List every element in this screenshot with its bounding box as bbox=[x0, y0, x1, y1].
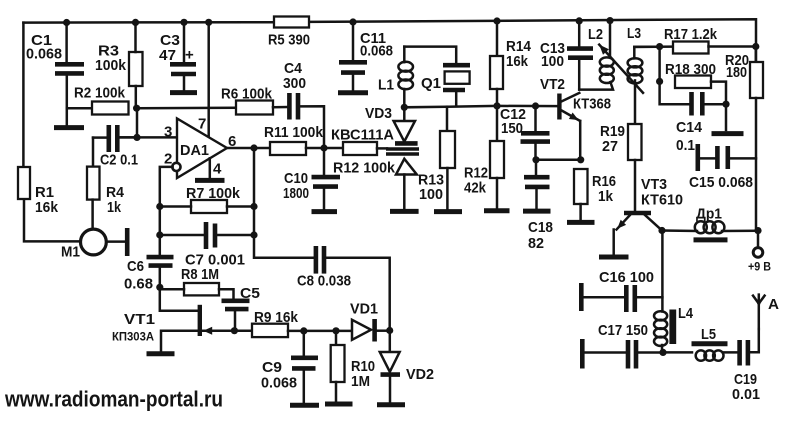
wire top supply rail left of R5 bbox=[23, 21, 274, 24]
node C12/C18 junction bbox=[532, 156, 539, 163]
node rail/C11 bbox=[349, 18, 356, 25]
svg-text:R6 100k: R6 100k bbox=[221, 86, 273, 103]
wire C7 right bbox=[217, 234, 254, 237]
resistor R5 bbox=[274, 17, 309, 28]
node supply junction bbox=[754, 227, 761, 234]
node R11/R12/C10 junction bbox=[320, 144, 327, 151]
svg-text:R7 100k: R7 100k bbox=[186, 185, 241, 202]
inductor L5 bbox=[663, 344, 737, 361]
node rail/C3 bbox=[180, 19, 187, 26]
svg-text:www.radioman-portal.ru: www.radioman-portal.ru bbox=[4, 387, 223, 412]
svg-text:+: + bbox=[185, 47, 194, 64]
inductor L1 bbox=[398, 47, 413, 108]
svg-text:R5 390: R5 390 bbox=[268, 32, 310, 49]
svg-text:100k: 100k bbox=[95, 57, 127, 74]
pin 2 wire bbox=[160, 167, 173, 255]
capacitor C17 bbox=[582, 339, 663, 369]
ground DA1 pin 4 bbox=[195, 178, 225, 183]
svg-text:R18 300: R18 300 bbox=[665, 61, 716, 78]
svg-text:100: 100 bbox=[419, 186, 443, 203]
capacitor C18 bbox=[524, 177, 550, 208]
svg-text:C8 0.038: C8 0.038 bbox=[297, 273, 351, 290]
wire microphone to electrode bbox=[106, 240, 125, 243]
wire to +9V terminal bbox=[757, 231, 760, 248]
wire R3 to R2 junction bbox=[135, 86, 138, 108]
svg-text:КТ610: КТ610 bbox=[641, 192, 683, 209]
svg-text:R12 100k: R12 100k bbox=[333, 160, 396, 177]
antenna A bbox=[753, 295, 765, 329]
node rail/R3 bbox=[132, 19, 139, 26]
wire pin 7 from rail to op-amp bbox=[207, 22, 210, 137]
node R2/R3/feedback junction bbox=[133, 105, 140, 112]
wire C2 left to R4 bbox=[93, 136, 106, 139]
choke Dr1 bbox=[694, 221, 759, 240]
transistor VT1 channel bbox=[198, 305, 202, 336]
capacitor C4 bbox=[289, 93, 298, 120]
node rail/R14 bbox=[493, 17, 500, 24]
wire C14 node to ground bbox=[725, 104, 728, 130]
wire R11 to R12 bbox=[306, 147, 343, 150]
node C5/gate junction bbox=[231, 327, 238, 334]
node C9 top bbox=[300, 327, 307, 334]
resistor R16 bbox=[574, 169, 588, 220]
resistor R2 bbox=[92, 102, 129, 115]
pin 4 wire bbox=[209, 158, 212, 178]
svg-text:1800: 1800 bbox=[283, 185, 309, 202]
capacitor C9 bbox=[291, 331, 318, 402]
wire R12b to ground bbox=[496, 178, 499, 208]
wire rail to R3 bbox=[134, 22, 137, 52]
node R18 left bbox=[656, 78, 663, 85]
node R14/base row bbox=[493, 102, 500, 109]
inductor L4 bbox=[654, 310, 676, 353]
svg-text:L3: L3 bbox=[627, 25, 641, 42]
wire rail to R14 bbox=[496, 21, 499, 56]
VT2 emitter arrow bbox=[569, 113, 579, 121]
wire R9 right bbox=[288, 330, 352, 333]
svg-text:Др1: Др1 bbox=[696, 206, 722, 223]
wire R14 node to R12b bbox=[496, 106, 499, 141]
node pin3/C2 junction bbox=[133, 134, 140, 141]
wire feedback row to R6 bbox=[137, 106, 236, 109]
terminal +9V bbox=[753, 248, 763, 258]
wire R4 to microphone bbox=[91, 200, 94, 230]
ground C1 bbox=[54, 125, 84, 130]
svg-text:2: 2 bbox=[164, 151, 172, 168]
svg-text:L2: L2 bbox=[588, 26, 603, 43]
capacitor C15 bbox=[698, 144, 756, 171]
svg-text:A: A bbox=[768, 296, 779, 313]
capacitor C1 bbox=[55, 23, 84, 125]
wire R8 right to C5 bbox=[219, 289, 234, 298]
wire C2 right to pin3 bbox=[120, 136, 137, 139]
resistor R20 bbox=[750, 47, 763, 231]
wire R13 to ground bbox=[446, 168, 449, 210]
ground VD2 bbox=[377, 402, 405, 407]
node L4/C17/L5 junction bbox=[659, 349, 666, 356]
inversion bubble pin 2 bbox=[172, 163, 180, 171]
node VT3 collector bbox=[658, 227, 665, 234]
node C6/R8 junction bbox=[156, 284, 163, 291]
wire top supply rail right of R5 bbox=[309, 19, 756, 62]
svg-text:7: 7 bbox=[198, 116, 206, 133]
resistor R4 bbox=[87, 167, 100, 200]
wire emitter row bbox=[536, 159, 581, 162]
resistor R13 bbox=[440, 131, 455, 168]
node R7 left junction bbox=[156, 203, 163, 210]
microphone electrode bar bbox=[125, 228, 130, 256]
wire R1 bottom to microphone bbox=[24, 199, 81, 241]
svg-text:C6: C6 bbox=[127, 258, 144, 275]
diode VD1 bbox=[352, 319, 390, 342]
VT1 gate arrow bbox=[203, 327, 212, 335]
VT3 emitter arrow bbox=[617, 220, 626, 229]
svg-text:150: 150 bbox=[501, 120, 523, 137]
svg-text:L1: L1 bbox=[378, 77, 394, 94]
svg-text:КТ368: КТ368 bbox=[573, 96, 611, 113]
capacitor C11 bbox=[339, 22, 367, 90]
wire C18 top stem bbox=[535, 160, 538, 175]
node rail/C13 bbox=[576, 17, 583, 24]
capacitor C13 bbox=[567, 21, 593, 90]
node VD1/VD2/C8 junction bbox=[386, 327, 393, 334]
svg-text:C17 150: C17 150 bbox=[598, 322, 648, 339]
ground VT3 emitter bbox=[599, 255, 629, 260]
node rail/pin7 bbox=[205, 19, 212, 26]
svg-text:Q1: Q1 bbox=[421, 75, 441, 92]
node R10 top bbox=[332, 327, 339, 334]
svg-text:M1: M1 bbox=[61, 244, 80, 261]
svg-text:47: 47 bbox=[159, 47, 176, 64]
resistor R14 bbox=[490, 56, 503, 89]
wire op-amp output bbox=[227, 147, 270, 150]
wire R13 branch bbox=[446, 107, 449, 131]
svg-text:VD1: VD1 bbox=[350, 301, 378, 318]
ground VT1 bbox=[147, 351, 175, 356]
node R7 right junction bbox=[250, 203, 257, 210]
wire C6 bottom to R8 node bbox=[159, 268, 162, 288]
capacitor C2 bbox=[109, 125, 118, 152]
wire oscillator base row bbox=[404, 106, 557, 107]
wire R18 right corner bbox=[711, 82, 726, 105]
wire R12 to VD3 midpoint bbox=[377, 147, 387, 150]
ground C10 bbox=[312, 209, 338, 214]
wire C1 to R2 left bbox=[67, 107, 92, 110]
svg-text:VT1: VT1 bbox=[124, 311, 155, 328]
capacitor C12 bbox=[521, 106, 551, 160]
wire C7 left bbox=[160, 234, 204, 237]
wire R7 right bbox=[227, 205, 254, 208]
ground R13 bbox=[434, 209, 462, 214]
svg-text:16k: 16k bbox=[506, 53, 529, 70]
wire R14 bottom bbox=[496, 89, 499, 106]
resistor R18 bbox=[675, 76, 711, 89]
tuning arrow through L2 L3 bbox=[599, 45, 643, 93]
svg-text:0.068: 0.068 bbox=[26, 46, 62, 63]
resistor R11 bbox=[270, 142, 306, 155]
svg-text:VT2: VT2 bbox=[540, 76, 565, 93]
resistor R9 bbox=[252, 324, 288, 337]
wire R17/R18 link bbox=[658, 47, 661, 82]
ground R12 42k bbox=[484, 208, 510, 213]
resistor R10 bbox=[331, 331, 345, 401]
pin 3 wire bbox=[120, 136, 176, 139]
svg-text:R17 1.2k: R17 1.2k bbox=[664, 26, 718, 43]
svg-text:42k: 42k bbox=[464, 180, 487, 197]
ground R10 bbox=[325, 402, 353, 407]
wire R8 left bbox=[160, 288, 184, 291]
svg-text:C14: C14 bbox=[676, 119, 703, 136]
wire junction down to pin3 node bbox=[136, 108, 139, 137]
node R17 right bbox=[752, 43, 759, 50]
wire VT3 collector column bbox=[661, 231, 664, 312]
node C14/R18 junction bbox=[722, 101, 729, 108]
diode VD2 bbox=[380, 331, 400, 403]
resistor R17 bbox=[673, 42, 709, 54]
svg-text:0.068: 0.068 bbox=[261, 375, 297, 392]
wire C8 to VD1 junction bbox=[326, 258, 390, 331]
inductor L2 bbox=[579, 21, 614, 90]
svg-text:L5: L5 bbox=[701, 326, 716, 343]
svg-text:300: 300 bbox=[283, 75, 306, 92]
svg-text:L4: L4 bbox=[678, 305, 694, 322]
resistor R6 bbox=[236, 101, 273, 115]
node C7 right junction bbox=[250, 231, 257, 238]
wire C5 bottom bbox=[234, 311, 237, 328]
transistor VT3 bbox=[614, 213, 662, 254]
wire R17 right bbox=[709, 45, 756, 48]
svg-text:C2 0.1: C2 0.1 bbox=[100, 152, 138, 169]
node R17 left bbox=[656, 43, 663, 50]
wire R7 left bbox=[160, 205, 191, 208]
wire C4 to R11/R12 node bbox=[300, 106, 324, 175]
wire VT3 to choke bbox=[662, 229, 697, 232]
svg-text:C15 0.068: C15 0.068 bbox=[689, 174, 753, 191]
resistor R1 bbox=[18, 167, 30, 199]
ground VD3 bbox=[390, 209, 419, 214]
ground C11 bbox=[338, 90, 368, 95]
ground R16 bbox=[567, 220, 595, 225]
svg-text:C18: C18 bbox=[528, 219, 553, 236]
capacitor C10 bbox=[312, 177, 341, 209]
capacitor C16 bbox=[581, 283, 662, 312]
wire R4 top bbox=[92, 138, 95, 167]
wire VT1 gate to R9 bbox=[203, 330, 252, 333]
svg-text:1k: 1k bbox=[598, 188, 614, 205]
capacitor C8 bbox=[316, 246, 324, 274]
crystal Q1 bbox=[443, 65, 470, 106]
svg-text:3: 3 bbox=[164, 124, 172, 141]
resistor R12 series bbox=[343, 142, 377, 155]
svg-text:0.068: 0.068 bbox=[360, 43, 393, 60]
node L1/VD3 junction bbox=[401, 104, 408, 111]
svg-text:DA1: DA1 bbox=[180, 142, 209, 159]
svg-text:1k: 1k bbox=[107, 199, 122, 216]
svg-text:R11 100k: R11 100k bbox=[264, 124, 324, 141]
resistor R8 bbox=[184, 283, 219, 295]
svg-text:27: 27 bbox=[602, 138, 618, 155]
resistor R19 bbox=[628, 124, 642, 160]
svg-text:0.1: 0.1 bbox=[676, 137, 695, 154]
microphone M1 bbox=[81, 229, 107, 255]
wire R6 to C4 bbox=[273, 106, 287, 109]
capacitor C5 bbox=[222, 301, 250, 309]
capacitor C7 bbox=[206, 222, 215, 249]
node VT2 emitter junction bbox=[577, 156, 584, 163]
node rail/C1 bbox=[63, 19, 70, 26]
svg-text:VD2: VD2 bbox=[406, 366, 434, 383]
wire L3 to R17 bbox=[634, 45, 673, 48]
node rail/L2 bbox=[606, 17, 613, 24]
svg-text:82: 82 bbox=[528, 235, 544, 252]
svg-text:VT3: VT3 bbox=[641, 176, 667, 193]
varicap VD3 KBC111A bbox=[386, 107, 419, 209]
ground C3 bbox=[170, 90, 197, 95]
svg-text:16k: 16k bbox=[35, 199, 59, 216]
resistor R7 bbox=[191, 200, 227, 213]
resistor R3 bbox=[129, 52, 143, 86]
svg-text:R8 1M: R8 1M bbox=[181, 266, 219, 283]
resistor R12 42k bbox=[490, 141, 504, 178]
node C7 left junction bbox=[156, 231, 163, 238]
wire VT1 source to ground bbox=[161, 331, 197, 351]
wire R18 node to C14 bbox=[660, 81, 689, 104]
ground C9 bbox=[290, 403, 319, 408]
svg-text:0.68: 0.68 bbox=[124, 276, 153, 293]
transistor VT2 bbox=[559, 93, 580, 160]
svg-text:0.01: 0.01 bbox=[732, 386, 760, 403]
capacitor C14 bbox=[692, 92, 727, 116]
inductor L3 bbox=[628, 47, 660, 124]
svg-text:180: 180 bbox=[726, 64, 747, 81]
svg-text:R2 100k: R2 100k bbox=[74, 85, 126, 102]
capacitor C3 electrolytic bbox=[170, 22, 196, 90]
capacitor C6 bbox=[147, 257, 174, 266]
wire L1 top to Q1 bbox=[404, 47, 456, 63]
node output junction bbox=[250, 144, 257, 151]
wire left border from rail to R1 bbox=[22, 23, 25, 167]
op-amp DA1 bbox=[177, 119, 227, 179]
svg-text:+9 В: +9 В bbox=[748, 260, 771, 274]
ground C14 bbox=[712, 131, 744, 136]
svg-text:R9 16k: R9 16k bbox=[254, 309, 299, 326]
svg-text:C9: C9 bbox=[262, 359, 282, 376]
svg-text:4: 4 bbox=[213, 161, 222, 178]
svg-text:C16 100: C16 100 bbox=[599, 269, 654, 286]
node C12 tap bbox=[532, 102, 539, 109]
svg-text:КП303А: КП303А bbox=[112, 330, 154, 344]
wire R19 to VT3 base bbox=[634, 160, 637, 211]
svg-text:C5: C5 bbox=[240, 285, 260, 302]
svg-text:100: 100 bbox=[541, 53, 564, 70]
ground C18 bbox=[523, 209, 551, 214]
svg-text:VD3: VD3 bbox=[365, 105, 392, 122]
wire output column down to C8 row bbox=[254, 148, 313, 258]
wire to VT1 channel top bbox=[160, 287, 197, 311]
capacitor C19 bbox=[740, 329, 759, 366]
svg-text:1M: 1M bbox=[351, 373, 370, 390]
